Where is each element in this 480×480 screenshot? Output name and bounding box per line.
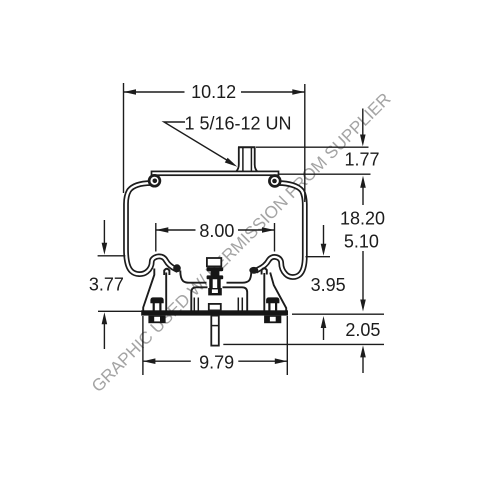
right seat knob [249, 267, 258, 274]
center clamp spool [207, 267, 224, 279]
thread callout leader [164, 122, 233, 164]
dimension 1.77 [256, 109, 371, 175]
center stud shank [211, 316, 219, 346]
left bolt [148, 297, 165, 323]
top bead plate [152, 171, 279, 175]
svg-text:1 5/16-12 UN: 1 5/16-12 UN [185, 114, 292, 134]
svg-text:2.05: 2.05 [345, 320, 380, 340]
center clamp block [208, 288, 222, 295]
dimension 3.77 [98, 220, 142, 349]
left rib ticks [194, 298, 242, 311]
svg-text:10.12: 10.12 [191, 82, 236, 102]
piston left outer wall [165, 273, 167, 311]
right bead curl [269, 176, 280, 187]
bottom mounting plate bar [141, 310, 288, 315]
center clamp shank [209, 279, 221, 289]
svg-text:3.95: 3.95 [311, 275, 346, 295]
dimension 8.00 [156, 223, 275, 252]
piston right outer wall [263, 273, 265, 311]
center stud boss [209, 304, 221, 311]
piston upper surface [143, 268, 286, 310]
threaded stud fitting [236, 147, 257, 171]
dimension 3.95 [306, 225, 331, 340]
watermark [87, 89, 394, 396]
svg-text:9.79: 9.79 [199, 353, 234, 373]
svg-text:18.20: 18.20 [340, 209, 385, 229]
left bead curl [149, 175, 160, 186]
piston lower box [191, 287, 247, 310]
dimension 9.79 [143, 316, 287, 375]
right bolt [264, 297, 281, 323]
left bracket slope [143, 269, 154, 311]
svg-text:1.77: 1.77 [344, 150, 379, 170]
left seat knob [173, 264, 181, 272]
svg-text:8.00: 8.00 [199, 221, 234, 241]
svg-text:5.10: 5.10 [344, 231, 379, 251]
right bracket slope [270, 273, 286, 311]
dimension 18.20 / 5.10 vertical line [362, 184, 364, 303]
dimension 2.05 [223, 314, 384, 373]
left seat pocket [164, 269, 169, 275]
center clamp tab [207, 258, 221, 266]
right seat pocket [262, 268, 267, 274]
bellows outer double wall [126, 183, 305, 277]
dimension 10.12 [124, 83, 305, 202]
svg-text:3.77: 3.77 [89, 275, 124, 295]
